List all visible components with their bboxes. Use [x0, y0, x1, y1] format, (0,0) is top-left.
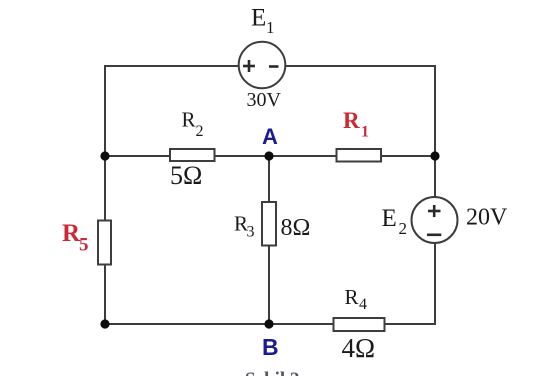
svg-text:Şekil 2: Şekil 2: [245, 369, 299, 376]
wire left vertical lower (R5 to bottom corner): [104, 264, 106, 325]
label R4: [345, 285, 368, 313]
resistor R2 (box): [170, 149, 215, 161]
wire bottom right (R4 to bottom-right corner): [384, 323, 435, 325]
value 4Ω: [342, 333, 376, 363]
wire top-right horizontal (E1 to right corner): [284, 65, 435, 67]
svg-text:8Ω: 8Ω: [281, 215, 311, 241]
svg-text:5Ω: 5Ω: [170, 161, 202, 190]
label R2: [182, 108, 204, 141]
wire middle horizontal left (left node to R2): [105, 155, 171, 157]
wire right vertical lower (E2 to bottom corner): [434, 242, 436, 325]
junction dot node A: [264, 151, 273, 160]
svg-text:4Ω: 4Ω: [342, 333, 376, 363]
svg-text:B: B: [262, 334, 279, 360]
wire bottom left (bottom-left node to R4): [105, 323, 334, 325]
wire middle horizontal center (R2 to R1 through node A): [214, 155, 337, 157]
label R5 (red): [62, 220, 89, 256]
wire left vertical upper (top corner to R5): [104, 65, 106, 221]
value 5Ω: [170, 161, 202, 190]
svg-text:1: 1: [266, 18, 275, 37]
wire middle vertical lower (R3 to node B): [268, 245, 270, 325]
node label A (navy): [262, 124, 278, 149]
svg-text:A: A: [262, 124, 278, 149]
junction dot node B: [264, 319, 273, 328]
wire top-left horizontal (node to E1): [105, 65, 240, 67]
voltage source E1 (circle with + -): [239, 42, 286, 89]
node label B (navy): [262, 334, 279, 360]
label E2: [382, 205, 408, 238]
resistor R3 (box, vertical): [262, 202, 276, 246]
svg-text:E: E: [382, 205, 397, 232]
value 30V: [247, 89, 282, 111]
label E1: [251, 5, 275, 38]
junction dot right-middle node: [430, 151, 439, 160]
svg-text:4: 4: [359, 296, 367, 313]
value 8Ω: [281, 215, 311, 241]
junction dot left-middle node: [100, 151, 109, 160]
label R1 (red): [343, 108, 369, 141]
voltage source E2 (circle with + over -): [412, 197, 458, 243]
svg-text:1: 1: [361, 124, 369, 141]
resistor R1 (box): [337, 149, 382, 162]
resistor R4 (box): [334, 318, 385, 331]
label R3: [234, 212, 255, 241]
wire right vertical upper (top corner to E2): [434, 65, 436, 199]
value 20V: [466, 205, 508, 231]
resistor R5 (box, vertical): [98, 221, 111, 265]
svg-text:20V: 20V: [466, 205, 508, 231]
svg-text:E: E: [251, 5, 266, 32]
svg-text:R: R: [345, 285, 359, 309]
svg-text:2: 2: [196, 123, 204, 140]
svg-text:R: R: [182, 108, 196, 132]
svg-text:3: 3: [247, 224, 255, 241]
svg-text:5: 5: [79, 235, 89, 256]
svg-text:2: 2: [399, 219, 408, 238]
junction dot bottom-left node: [100, 319, 109, 328]
wire middle vertical upper (node A to R3): [268, 156, 270, 203]
svg-text:30V: 30V: [247, 89, 282, 111]
svg-text:R: R: [343, 108, 360, 133]
wire middle horizontal right (R1 to right node): [380, 155, 435, 157]
caption Şekil 2 (mostly cut off at bottom): [245, 369, 299, 376]
